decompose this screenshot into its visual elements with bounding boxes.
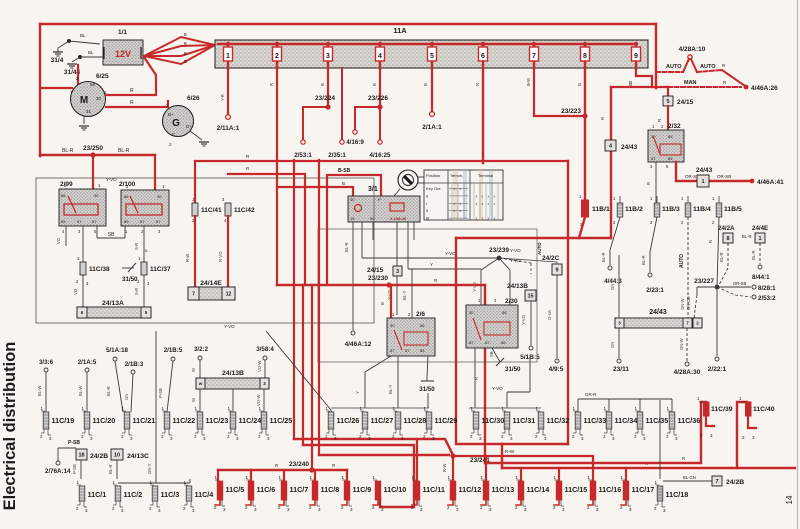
svg-text:6/26: 6/26 (187, 95, 200, 102)
wire: R feed vertical right (567, 161, 569, 444)
connector 11C/18 (657, 486, 663, 501)
svg-text:1/1: 1/1 (118, 29, 127, 36)
svg-text:B: B (423, 83, 428, 86)
svg-text:2/1A:5: 2/1A:5 (78, 359, 97, 366)
svg-text:B: B (184, 59, 187, 64)
svg-text:5/1A:18: 5/1A:18 (106, 347, 129, 354)
svg-text:BL-R: BL-R (751, 250, 756, 260)
svg-text:x: x (460, 202, 462, 206)
svg-text:I: I (426, 201, 427, 206)
svg-text:11C/30: 11C/30 (482, 416, 505, 425)
wire: 2/30 output to 11C/31 Y-VO (529, 357, 531, 392)
connector 11C/30 (473, 412, 479, 429)
svg-text:III: III (426, 216, 429, 221)
svg-text:Y-VO: Y-VO (445, 251, 456, 256)
wire: lower R bus right (501, 444, 503, 468)
connector 11C/31 (504, 412, 510, 429)
connector 11C/17 (623, 481, 629, 500)
wire: GR-R bus (578, 398, 672, 400)
svg-text:50: 50 (370, 216, 375, 221)
fuse 3 (326, 42, 330, 46)
wire: fuse4 to 23/226 (379, 68, 381, 107)
wire: cross link at 238 (456, 237, 611, 239)
svg-text:11C/31: 11C/31 (513, 416, 536, 425)
svg-text:87: 87 (140, 219, 145, 224)
connector 11C/29 (426, 412, 432, 429)
svg-text:BL-W: BL-W (37, 385, 42, 396)
svg-text:5: 5 (430, 53, 434, 60)
wire: 24/4E dashed to 8/44:1 (759, 243, 761, 264)
svg-text:x: x (494, 194, 496, 198)
node 23/226 (377, 104, 382, 109)
svg-text:Y: Y (355, 391, 360, 394)
wire: 23/226 to 4/16:9 (355, 107, 380, 129)
svg-text:87: 87 (77, 219, 82, 224)
svg-text:GR-R: GR-R (585, 392, 597, 397)
wire: 2/35:1 drop to bottom (318, 160, 320, 455)
svg-text:23/239: 23/239 (489, 247, 509, 254)
terminal 2/1A:1 (430, 112, 435, 117)
svg-text:x: x (460, 209, 462, 213)
ignition key symbol (398, 170, 418, 190)
connector 11C/20 (84, 412, 90, 429)
svg-text:11C/11: 11C/11 (423, 485, 445, 494)
svg-text:11C/41: 11C/41 (201, 207, 222, 214)
svg-text:GN-W: GN-W (680, 298, 685, 310)
wire: hairpin bottom bus to 23/230 (277, 284, 485, 286)
svg-text:30: 30 (390, 323, 395, 328)
svg-text:11C/17: 11C/17 (632, 485, 655, 494)
node 23/230 (386, 282, 391, 287)
connector 11C/7 (281, 481, 287, 500)
connector 11C/16 (590, 481, 596, 500)
wire: pin1 bus 11C/2..11C/4 (118, 482, 190, 484)
connector 11C/5 (217, 481, 223, 500)
svg-text:6: 6 (481, 53, 485, 60)
wire: 23/227 dashed to 2/53:2 (717, 287, 735, 295)
connector 11C/4 (186, 486, 192, 501)
wire: fuse2 hairpin to 11C/42 (276, 68, 278, 285)
svg-text:85: 85 (501, 340, 506, 345)
fuse 4 (378, 42, 382, 46)
svg-text:2/32: 2/32 (668, 123, 681, 130)
svg-text:87: 87 (651, 156, 656, 161)
wire: 11C/27 feed (365, 356, 391, 372)
svg-text:R: R (130, 88, 134, 94)
svg-text:2/1B:3: 2/1B:3 (125, 361, 144, 368)
fuse 5 (430, 42, 434, 46)
svg-text:85: 85 (61, 219, 66, 224)
wire: battery drop to M pin 1 (106, 57, 156, 95)
svg-text:5: 5 (666, 99, 669, 105)
terminal 2/11A:1 (226, 115, 231, 120)
wire: R line to 11C/39 (485, 402, 706, 463)
connector 11C/2 (115, 486, 121, 501)
svg-text:B: B (320, 83, 325, 86)
svg-text:11C/10: 11C/10 (384, 485, 407, 494)
wire: 23/227 left to GN-OB (697, 286, 717, 288)
wire: 23/241 R-W right (453, 456, 593, 481)
svg-text:24/2B: 24/2B (90, 453, 108, 460)
wire: fuse8 drop (584, 68, 586, 200)
connector 11C/3 (152, 486, 158, 501)
svg-text:11C/18: 11C/18 (666, 490, 689, 499)
wire: 23/239 to 2/30 pin2 (499, 258, 510, 270)
svg-text:3/3:6: 3/3:6 (39, 359, 54, 366)
ground 31/44 (79, 56, 82, 59)
svg-text:6/25: 6/25 (96, 73, 109, 80)
wire: left supply drop (39, 24, 41, 156)
svg-text:9: 9 (634, 53, 638, 60)
svg-text:11C/16: 11C/16 (599, 485, 622, 494)
svg-text:AUTO: AUTO (679, 254, 685, 268)
svg-text:11C/26: 11C/26 (337, 416, 360, 425)
svg-text:M: M (80, 95, 88, 106)
wire: 24/13B outputs (199, 389, 201, 412)
connector 11C/13 (483, 481, 489, 500)
svg-text:BL-W: BL-W (78, 385, 83, 396)
svg-text:BL-R: BL-R (62, 148, 74, 154)
svg-text:Terminal: Terminal (478, 173, 493, 178)
svg-text:R: R (708, 240, 713, 243)
node 23/224 (325, 104, 330, 109)
svg-text:3/1: 3/1 (368, 186, 378, 193)
svg-text:Y-VO: Y-VO (510, 258, 521, 263)
svg-text:11C/29: 11C/29 (435, 416, 458, 425)
connector 11C/8 (312, 481, 318, 500)
svg-text:P-SB: P-SB (72, 464, 77, 474)
connector 11C/24 (230, 412, 236, 429)
connector 24/43 pin 4 (605, 140, 616, 151)
svg-text:BL: BL (88, 50, 94, 55)
svg-text:GN: GN (610, 284, 615, 290)
svg-text:86: 86 (420, 323, 425, 328)
svg-text:BL-R: BL-R (641, 255, 646, 265)
svg-text:87: 87 (469, 340, 474, 345)
svg-text:2/6: 2/6 (416, 311, 425, 318)
svg-text:B: B (372, 83, 377, 86)
svg-text:3/58:4: 3/58:4 (256, 346, 274, 353)
svg-text:R: R (600, 117, 605, 120)
fuse 8 (583, 42, 587, 46)
svg-text:2/11A:1: 2/11A:1 (217, 125, 240, 132)
svg-text:BL-R: BL-R (344, 242, 349, 252)
connector 11C/33 (575, 412, 581, 429)
connector 11C/15 (556, 481, 562, 500)
wire: M pin 30 to generator B+ (106, 101, 168, 107)
wire: R feed to 11C/40 (737, 402, 747, 468)
svg-text:MAN: MAN (684, 80, 697, 86)
wire: 11C/42 down to 24/14E pin12 (227, 216, 229, 288)
svg-text:11C/2: 11C/2 (124, 490, 143, 499)
svg-text:12V: 12V (115, 49, 131, 59)
connector 11C/32 (538, 412, 544, 429)
svg-text:x: x (476, 194, 478, 198)
svg-text:D+: D+ (186, 124, 192, 129)
svg-text:P-SB: P-SB (68, 440, 80, 446)
wire: line A to 23/241 (294, 439, 452, 453)
svg-text:85: 85 (668, 156, 673, 161)
svg-text:x: x (476, 217, 478, 221)
svg-text:Y-VO: Y-VO (472, 281, 477, 292)
fuse 2 (275, 42, 279, 46)
svg-text:23/224: 23/224 (315, 95, 335, 102)
connector 24/15 pin 5 (667, 87, 669, 96)
svg-text:24/15: 24/15 (367, 267, 384, 274)
svg-text:AUTO: AUTO (666, 64, 682, 70)
svg-text:Position: Position (426, 173, 440, 178)
svg-text:24/2B: 24/2B (726, 479, 744, 486)
wire: 23/224 to 2/35:1 (341, 68, 343, 139)
svg-text:87: 87 (156, 219, 161, 224)
svg-text:15: 15 (527, 293, 533, 299)
wire: 23/224 to 2/53:1 (303, 107, 328, 139)
svg-text:x: x (454, 209, 456, 213)
enclosure: left relay box (36, 178, 374, 323)
wire: fuse9 drop (636, 68, 652, 87)
fuse 1 (226, 42, 230, 46)
svg-text:24/2C: 24/2C (542, 255, 560, 262)
svg-text:x: x (482, 202, 484, 206)
svg-text:S-R: S-R (134, 243, 139, 250)
svg-text:87: 87 (92, 219, 97, 224)
svg-text:11C/1: 11C/1 (88, 490, 107, 499)
svg-text:x: x (488, 194, 490, 198)
svg-text:85: 85 (420, 348, 425, 353)
svg-text:Y-VO: Y-VO (521, 314, 526, 325)
svg-text:Y: Y (430, 262, 433, 267)
svg-text:24/43: 24/43 (696, 167, 713, 174)
wire: fuse5 to 2/1A:1 (431, 68, 433, 111)
terminal 4/46A:41 (750, 179, 755, 184)
svg-text:B-W: B-W (526, 78, 531, 86)
svg-text:x: x (494, 217, 496, 221)
wire: 24/2A dashed to 23/227 (727, 243, 729, 268)
svg-text:11C/27: 11C/27 (371, 416, 394, 425)
connector 24/2B pin 18 (76, 449, 87, 460)
svg-text:11C/13: 11C/13 (492, 485, 515, 494)
svg-text:86: 86 (61, 193, 66, 198)
svg-text:x: x (482, 194, 484, 198)
svg-text:W: W (191, 368, 196, 372)
svg-text:Electrical distribution: Electrical distribution (1, 342, 19, 511)
wire: strip pin3 GN up (618, 255, 620, 318)
svg-text:85: 85 (124, 219, 129, 224)
wire: Y line to relay 2/30 (407, 222, 409, 269)
svg-text:BL-R: BL-R (108, 464, 113, 474)
wire: 11B/3 to 2/23:1 (650, 217, 657, 252)
connector 11C/26 (328, 412, 334, 429)
svg-text:2/53:1: 2/53:1 (294, 152, 312, 159)
svg-text:4/16:25: 4/16:25 (370, 152, 392, 159)
connector 11C/27 (362, 412, 368, 429)
node 23/250 (90, 152, 95, 157)
svg-text:24/43: 24/43 (649, 309, 667, 316)
wire: fuse6 drop joins R bus (482, 68, 484, 163)
wire: pin1 bus 11C/26..11C/29 (331, 407, 429, 409)
svg-text:87: 87 (485, 340, 490, 345)
wire: 2/32 output OR-SB to 4/46A:41 (676, 162, 697, 181)
wire: 11C/41 down to 24/14E pin7 (194, 216, 196, 288)
svg-text:GN: GN (124, 394, 129, 400)
connector 11C/12 (450, 481, 456, 500)
wire: fuse3 to 23/224 (327, 68, 329, 107)
svg-text:11C/39: 11C/39 (711, 406, 733, 413)
wire: battery B+ fan to fuse strip (144, 37, 215, 56)
svg-text:24/14E: 24/14E (200, 280, 222, 287)
wire: 2/6 pin 85 to ground (427, 356, 428, 377)
connector 11C/6 (248, 481, 254, 500)
svg-text:2/22:1: 2/22:1 (708, 366, 727, 373)
svg-text:2: 2 (275, 53, 279, 60)
table: ignition positions (424, 170, 503, 220)
wire: 11B/4 AUTO dashed to 24/43 strip (687, 217, 689, 318)
svg-text:B: B (184, 41, 187, 46)
wire: 11B/2 to 4/44:3 (610, 217, 620, 250)
wire: line B hook to 11C/10 (303, 445, 414, 507)
svg-text:9: 9 (555, 267, 558, 273)
wire: 23/250 branch line BL-R (40, 154, 155, 156)
svg-text:B: B (577, 83, 582, 86)
svg-text:BL-R: BL-R (742, 234, 752, 239)
svg-text:x: x (488, 217, 490, 221)
wire: supply right drop to AUTO/MAN switch (655, 24, 657, 88)
svg-text:OR-SB: OR-SB (733, 281, 746, 286)
svg-text:BL-R: BL-R (106, 386, 111, 396)
wire: GN-Y long drop to 11C/3 (155, 331, 157, 483)
svg-text:8: 8 (583, 53, 587, 60)
wire: 24/2B to 11C/1 (80, 460, 82, 479)
ground 31/4 (68, 40, 71, 43)
svg-text:87: 87 (405, 348, 410, 353)
svg-text:VO-W: VO-W (256, 395, 261, 406)
svg-text:11B/1: 11B/1 (592, 206, 610, 213)
svg-text:24/13B: 24/13B (507, 283, 528, 290)
svg-text:24/43: 24/43 (621, 144, 638, 151)
wire: BL-GN 11C/18 to 24/2B (663, 480, 712, 482)
wire: R feed to 11C/41 (195, 160, 568, 162)
svg-text:Y-VO: Y-VO (510, 248, 521, 253)
svg-text:11C/40: 11C/40 (753, 406, 775, 413)
svg-text:VO: VO (73, 288, 78, 295)
svg-text:11C/4: 11C/4 (195, 490, 214, 499)
svg-text:x: x (476, 202, 478, 206)
svg-text:VO-W: VO-W (257, 361, 262, 372)
svg-text:x: x (482, 217, 484, 221)
svg-text:1: 1 (758, 236, 761, 242)
svg-text:11B/3: 11B/3 (662, 206, 680, 213)
wire: battery to starter motor (72, 65, 78, 92)
svg-text:X-15A-16: X-15A-16 (390, 217, 406, 221)
svg-text:8/44:1: 8/44:1 (752, 274, 770, 281)
svg-text:x: x (460, 187, 462, 191)
svg-text:10: 10 (114, 452, 120, 458)
svg-text:30: 30 (469, 310, 474, 315)
svg-text:11C/9: 11C/9 (353, 485, 372, 494)
wire: BL-Y drop to 2/6 pin2 (411, 269, 413, 318)
svg-text:R-VO: R-VO (218, 251, 223, 262)
svg-text:11C/21: 11C/21 (133, 416, 156, 425)
wire: SB between relays (96, 226, 98, 238)
svg-text:23/226: 23/226 (368, 95, 388, 102)
wire: 24/13C to 11C/2 (116, 460, 118, 479)
wire: 23/241 down to 11C/12 (452, 456, 454, 481)
wire: drop to relay 2/99 pin 30 (92, 155, 94, 192)
wire: bus through 24/43 pin 4 (610, 87, 612, 238)
wire: fuse7 to node 23/223 (533, 68, 535, 116)
svg-text:2/1A:1: 2/1A:1 (422, 124, 442, 131)
svg-text:11C/32: 11C/32 (547, 416, 570, 425)
connector 11C/11 (414, 481, 420, 500)
svg-text:11C/23: 11C/23 (206, 416, 229, 425)
svg-text:23/250: 23/250 (83, 145, 103, 152)
wire: strip pin7 GN-W dashed down to 4/28A:30 (686, 328, 688, 361)
svg-text:P: P (378, 197, 381, 202)
svg-text:BL-R: BL-R (118, 148, 130, 154)
wire: 2/53:1 drop to bottom (293, 160, 295, 439)
svg-text:BL-Y: BL-Y (402, 290, 407, 300)
svg-text:SB: SB (108, 232, 115, 238)
wire: hairpin riser B-SB to ignition switch (327, 175, 381, 285)
wire: Y-VO left to ignition (362, 257, 499, 259)
connector 11C/23 (197, 412, 203, 429)
wire: hairpin drop to 23/240 (311, 285, 313, 470)
svg-text:11A: 11A (393, 26, 407, 35)
svg-text:11B/2: 11B/2 (625, 206, 643, 213)
svg-text:30: 30 (350, 197, 355, 202)
connector 11C/1 (79, 486, 85, 501)
svg-text:31/50: 31/50 (419, 386, 435, 393)
connector 11C/22 (164, 412, 170, 429)
svg-text:G: G (172, 118, 180, 129)
wire: 24/2C down to 4/9:5 (556, 275, 558, 358)
ground: starter motor (83, 116, 85, 124)
svg-text:2/1B:5: 2/1B:5 (164, 347, 183, 354)
svg-text:11C/42: 11C/42 (234, 207, 255, 214)
svg-text:2/76A:14: 2/76A:14 (45, 468, 71, 475)
svg-text:4/46A:41: 4/46A:41 (757, 179, 784, 186)
svg-text:11C/36: 11C/36 (678, 416, 701, 425)
svg-text:x: x (454, 202, 456, 206)
svg-text:B: B (380, 302, 385, 305)
node 23/240 (309, 467, 314, 472)
svg-text:4/46A:12: 4/46A:12 (345, 341, 372, 348)
svg-text:R: R (269, 83, 274, 86)
svg-text:86: 86 (668, 134, 673, 139)
svg-text:GN-W: GN-W (679, 338, 684, 350)
enclosure: center box (318, 229, 537, 362)
svg-text:23/227: 23/227 (694, 278, 714, 285)
wire: fuse2 branch B to ignition pin 30 (277, 187, 353, 196)
connector 11C/35 (637, 412, 643, 429)
wire: drop to relay 2/100 pin 30 (154, 155, 156, 194)
svg-text:BL: BL (80, 33, 86, 38)
wire: ignition extra pins down (372, 222, 374, 240)
wire: 24/15 to relay 2/32 (667, 106, 669, 130)
wire: fuse bus (218, 43, 636, 46)
wire: 23/226 to 4/16:25 (379, 107, 381, 139)
svg-text:Termin.: Termin. (450, 173, 463, 178)
node 23/241 (450, 453, 455, 458)
svg-text:GN-OB: GN-OB (686, 296, 691, 310)
svg-text:24/15: 24/15 (677, 99, 694, 106)
svg-text:24/4E: 24/4E (752, 225, 768, 232)
svg-text:AUTO: AUTO (700, 64, 716, 70)
svg-text:R-W: R-W (185, 254, 190, 262)
svg-text:11C/24: 11C/24 (239, 416, 262, 425)
svg-text:11C/15: 11C/15 (565, 485, 588, 494)
svg-text:31/4: 31/4 (51, 57, 64, 64)
